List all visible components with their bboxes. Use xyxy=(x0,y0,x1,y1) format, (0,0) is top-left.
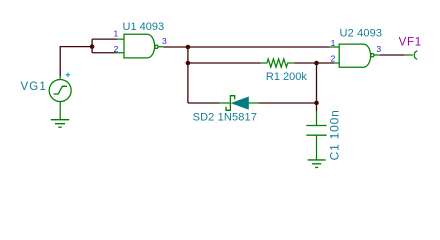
source VG1 waveform xyxy=(54,86,68,94)
plus sign VG1 xyxy=(66,73,70,77)
capacitor C1 pin top xyxy=(316,112,318,126)
nand gate U2 body xyxy=(339,44,370,67)
svg-text:C1 100n: C1 100n xyxy=(327,109,341,160)
nand gate U1 body xyxy=(124,34,155,58)
terminal VF1 lead xyxy=(405,54,413,56)
svg-text:3: 3 xyxy=(376,44,381,54)
capacitor C1 plates xyxy=(306,126,326,136)
svg-text:1: 1 xyxy=(331,38,336,48)
diode SD2 triangle xyxy=(232,97,249,109)
source VG1 circle xyxy=(49,80,71,102)
wire diode row right xyxy=(258,102,316,104)
junction feedback top xyxy=(186,45,191,50)
U2 output bubble xyxy=(371,54,374,57)
junction R1 row xyxy=(186,61,191,66)
svg-text:2: 2 xyxy=(331,54,336,64)
diode SD2 anode lead xyxy=(248,102,258,104)
wire R1 row right xyxy=(294,62,334,64)
ground under C1 xyxy=(308,160,326,168)
svg-text:SD2 1N5817: SD2 1N5817 xyxy=(193,111,258,123)
gate U1 pins xyxy=(116,39,164,53)
wire C1 vertical xyxy=(316,63,318,112)
wire U1 out to U2 in1 xyxy=(164,46,330,48)
capacitor C1 pin bottom xyxy=(316,135,318,160)
svg-text:VG1: VG1 xyxy=(21,81,47,93)
wire R1 row left xyxy=(188,62,261,64)
source VG1 top pin xyxy=(59,77,61,80)
wire diode row left xyxy=(188,102,220,104)
svg-text:U2 4093: U2 4093 xyxy=(340,28,383,40)
junction C1 top xyxy=(314,61,319,66)
wire U2 out to VF1 xyxy=(380,54,405,56)
U1 output bubble xyxy=(155,45,158,48)
svg-text:U1 4093: U1 4093 xyxy=(123,21,165,33)
wire U1 input link vertical xyxy=(92,39,117,53)
svg-text:3: 3 xyxy=(162,36,167,46)
source VG1 bottom pin xyxy=(59,102,61,120)
terminal VF1 arc xyxy=(414,51,417,59)
diode SD2 schottky bar xyxy=(226,96,235,111)
junction input node xyxy=(90,44,95,49)
gate U2 pins xyxy=(330,47,381,63)
svg-text:1: 1 xyxy=(114,29,119,39)
svg-text:2: 2 xyxy=(114,44,119,54)
ground under VG1 xyxy=(51,120,69,128)
svg-text:VF1: VF1 xyxy=(399,37,422,49)
wire from VG1 top to input junction xyxy=(60,47,91,77)
diode SD2 cathode lead xyxy=(220,102,231,104)
resistor R1 xyxy=(261,59,295,67)
svg-text:R1 200k: R1 200k xyxy=(266,71,307,83)
wire feedback vertical xyxy=(187,47,189,103)
junction diode row right xyxy=(314,101,319,106)
